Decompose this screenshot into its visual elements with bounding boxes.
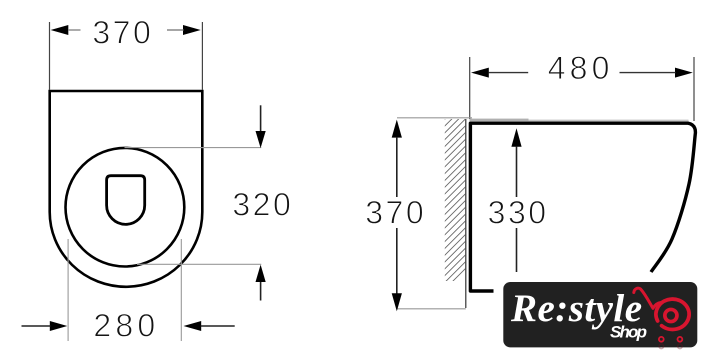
- svg-text:320: 320: [232, 187, 293, 223]
- svg-text:370: 370: [92, 15, 153, 51]
- svg-text:330: 330: [488, 194, 549, 230]
- svg-text:480: 480: [548, 50, 614, 86]
- svg-text:280: 280: [93, 308, 159, 344]
- svg-text:370: 370: [365, 194, 426, 230]
- svg-text:Shop: Shop: [610, 323, 647, 342]
